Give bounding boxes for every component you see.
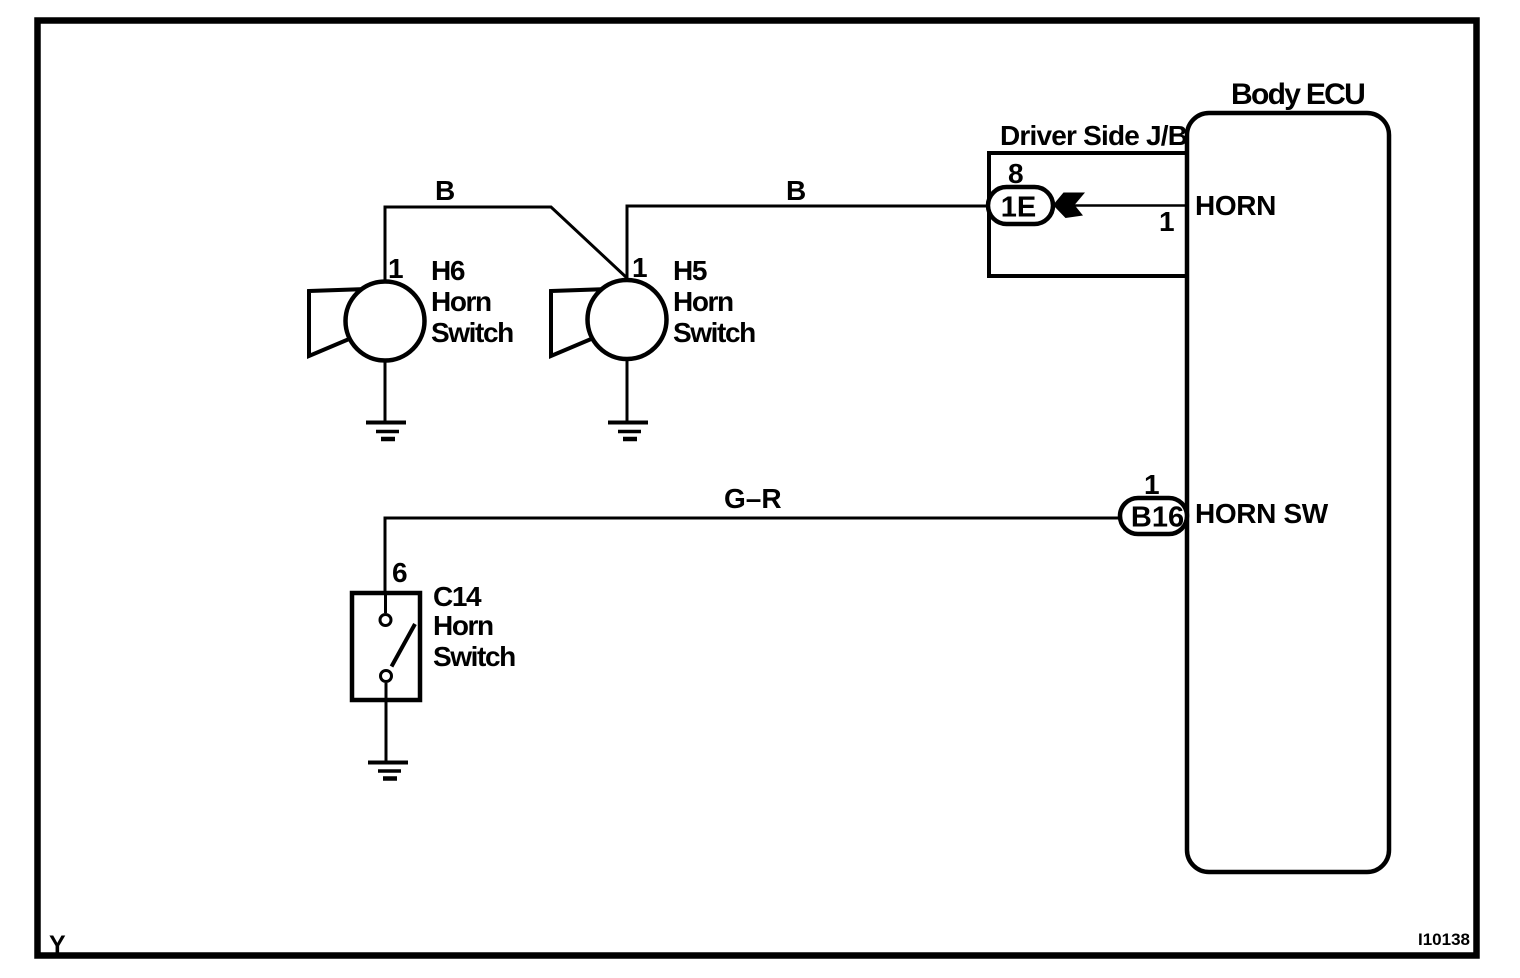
svg-text:Horn: Horn bbox=[673, 286, 733, 317]
svg-text:1: 1 bbox=[388, 253, 404, 284]
svg-text:8: 8 bbox=[1008, 158, 1024, 189]
svg-text:1: 1 bbox=[632, 252, 648, 283]
svg-text:1E: 1E bbox=[1001, 192, 1036, 224]
svg-text:B16: B16 bbox=[1131, 502, 1184, 534]
svg-text:Body ECU: Body ECU bbox=[1231, 78, 1364, 111]
svg-text:C14: C14 bbox=[433, 581, 482, 612]
svg-text:G–R: G–R bbox=[724, 483, 782, 514]
svg-text:Horn: Horn bbox=[431, 286, 491, 317]
svg-text:B: B bbox=[786, 175, 806, 206]
svg-text:Horn: Horn bbox=[433, 610, 493, 641]
svg-text:HORN: HORN bbox=[1195, 190, 1276, 221]
svg-text:Driver Side J/B: Driver Side J/B bbox=[1000, 120, 1187, 151]
svg-text:Y: Y bbox=[49, 931, 66, 959]
svg-text:HORN SW: HORN SW bbox=[1195, 498, 1329, 529]
svg-text:1: 1 bbox=[1159, 206, 1175, 237]
svg-text:I10138: I10138 bbox=[1418, 930, 1470, 949]
svg-text:H6: H6 bbox=[431, 255, 465, 286]
svg-text:6: 6 bbox=[392, 557, 408, 588]
svg-text:Switch: Switch bbox=[673, 317, 755, 348]
svg-text:B: B bbox=[435, 175, 455, 206]
svg-text:H5: H5 bbox=[673, 255, 707, 286]
svg-text:1: 1 bbox=[1144, 469, 1160, 500]
svg-text:Switch: Switch bbox=[433, 641, 515, 672]
svg-text:Switch: Switch bbox=[431, 317, 513, 348]
